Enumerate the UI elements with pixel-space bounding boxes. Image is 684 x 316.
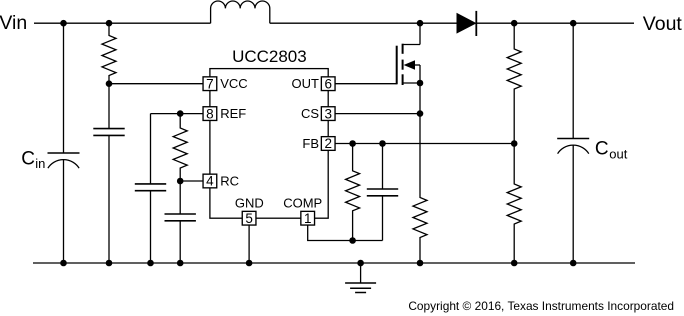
wire pin 3 CS to source leg [335,113,420,115]
svg-text:OUT: OUT [292,76,320,91]
node drain junction [417,20,424,27]
svg-text:8: 8 [206,106,214,121]
wire VCC node to pin 7 [109,83,203,85]
node comp junction [349,237,356,244]
node REF junction [177,110,184,117]
node divider lower to rail [511,260,518,267]
node CS resistor to ground [417,260,424,267]
diode D1 [457,11,476,36]
resistor (Vin to VCC) [102,23,116,83]
wire RC node to pin 4 [180,180,203,182]
wire pin 2 FB to divider [335,143,514,145]
node source junction [417,80,424,87]
capacitor Cin [48,23,80,263]
node top rail Cout junction [570,20,577,27]
pin 5 GND [235,195,264,226]
inductor L1 [211,1,270,23]
node REF-cap rail junction [147,260,154,267]
svg-text:UCC2803: UCC2803 [232,47,307,66]
transistor Q1 (N-MOSFET) [397,44,420,85]
node VCC junction [106,80,113,87]
svg-text:2: 2 [324,136,332,151]
svg-text:VCC: VCC [220,76,247,91]
capacitor Cout [557,23,589,263]
wire source down [419,83,421,114]
op-amp U1 UCC2803 body [210,69,328,219]
svg-text:COMP: COMP [283,195,322,210]
svg-text:Vout: Vout [643,13,683,35]
resistor (divider lower) [507,144,521,264]
copyright notice [408,299,674,313]
pin 6 OUT [292,76,336,91]
node Vin-Cin junction [60,20,67,27]
node FB-Ccomp junction [379,140,386,147]
net label Vout [643,13,683,35]
node Vin-R junction [106,20,113,27]
capacitor (comp C) [367,144,398,241]
wire bottom rail [33,262,635,264]
wire inductor to diode [270,22,457,24]
wire diode to Vout [476,22,634,24]
capacitor (VCC bypass) [93,84,124,263]
svg-text:4: 4 [206,174,214,189]
pin 1 COMP [283,195,322,226]
node divider mid junction [511,140,518,147]
svg-text:GND: GND [235,195,264,210]
svg-text:3: 3 [324,106,332,121]
node CS junction [417,110,424,117]
label Cout [595,139,628,162]
svg-text:6: 6 [324,76,332,91]
pin 2 FB [302,136,335,151]
wire pin 6 OUT to gate [335,83,396,85]
svg-text:CS: CS [301,106,319,121]
label UCC2803 [232,47,307,66]
node top rail divider junction [511,20,518,27]
resistor (comp R) [346,144,360,241]
resistor (RT, REF to RC) [173,114,187,181]
node ground stem junction [357,260,364,267]
svg-text:7: 7 [206,76,214,91]
svg-text:in: in [35,156,45,171]
svg-text:out: out [609,147,627,162]
pin 7 VCC [203,76,248,91]
wire drain to top rail [419,23,421,44]
pin 3 CS [301,106,335,121]
pin 4 RC [203,174,239,189]
capacitor (REF bypass) [135,114,166,263]
svg-text:Vin: Vin [0,12,27,34]
svg-text:C: C [595,139,609,160]
node CT rail junction [177,260,184,267]
wire pin 5 GND to rail [248,225,250,263]
node Cout rail junction [570,260,577,267]
svg-text:REF: REF [220,106,246,121]
node Cin rail junction [60,260,67,267]
wire Vin to inductor [34,22,211,24]
svg-text:FB: FB [302,136,319,151]
resistor (current sense) [413,114,427,263]
svg-text:Copyright © 2016, Texas Instru: Copyright © 2016, Texas Instruments Inco… [408,299,674,313]
node FB-Rcomp junction [349,140,356,147]
wire pin 1 COMP down [308,225,383,240]
svg-text:1: 1 [304,211,312,226]
svg-text:C: C [21,148,35,169]
node VCC-cap rail junction [106,260,113,267]
pin 8 REF [203,106,246,121]
wire REF to pin 8 [151,113,203,115]
node GND rail junction [246,260,253,267]
ground [345,263,376,293]
resistor (divider upper) [507,23,521,143]
net label Vin [0,12,27,34]
svg-text:RC: RC [220,174,239,189]
node RC junction [177,178,184,185]
capacitor (CT timing) [165,181,196,263]
label Cin [21,148,45,171]
svg-text:5: 5 [245,211,253,226]
